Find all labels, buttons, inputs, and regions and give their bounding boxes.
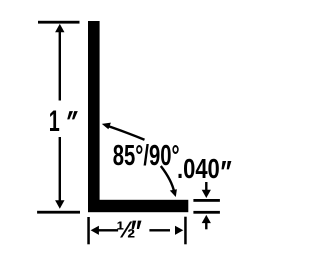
dimension .040" upper arrow bbox=[202, 182, 211, 198]
label 1/2" bbox=[116, 216, 141, 242]
label .040" bbox=[177, 154, 231, 185]
svg-text:85°/90°: 85°/90° bbox=[113, 141, 180, 172]
svg-text:.040: .040 bbox=[177, 154, 220, 185]
dimension 1/2" right tick line bbox=[184, 217, 187, 245]
label 1" bbox=[49, 105, 78, 138]
leader arc to vertical leg (85/90 angle) bbox=[102, 123, 145, 140]
dimension 1" lower arrow bbox=[55, 137, 64, 209]
dimension 1/2" left arrow bbox=[91, 226, 119, 235]
dimension .040" lower arrow bbox=[202, 215, 211, 229]
dimension 1" bottom extension line bbox=[37, 211, 80, 214]
vertical leg of angle profile bbox=[88, 21, 100, 212]
svg-text:1: 1 bbox=[49, 105, 60, 138]
dimension .040" bottom tick line bbox=[193, 211, 220, 214]
leader arc to horizontal leg (85/90 angle) bbox=[161, 166, 177, 197]
dimension 1/2" right arrow bbox=[149, 226, 183, 235]
dimension 1" top extension line bbox=[38, 21, 80, 24]
dimension .040" top tick line bbox=[193, 199, 220, 202]
dimension 1/2" left tick line bbox=[87, 217, 90, 244]
svg-text:½: ½ bbox=[116, 216, 135, 242]
horizontal leg of angle profile bbox=[88, 200, 188, 212]
dimension 1" upper arrow bbox=[55, 24, 64, 101]
